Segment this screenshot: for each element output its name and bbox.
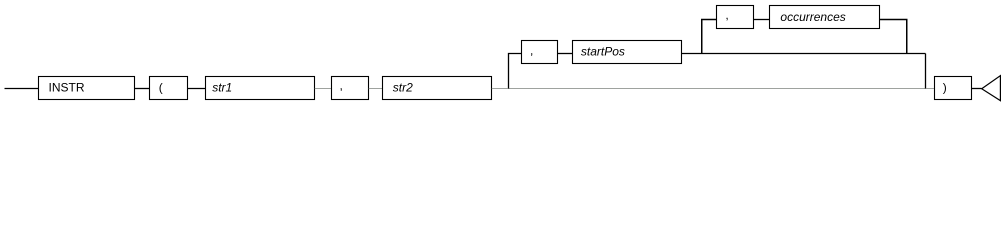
operand occurrences <box>770 6 880 29</box>
operand str1 <box>206 77 315 100</box>
operand startPos <box>573 41 682 64</box>
svg-text:INSTR: INSTR <box>49 81 85 95</box>
terminal INSTR <box>39 77 135 100</box>
end arrow (open triangle) <box>982 76 1001 101</box>
wire <box>972 88 982 90</box>
svg-text:(: ( <box>159 81 163 95</box>
terminal , <box>332 77 369 100</box>
terminal ) <box>935 77 972 100</box>
terminal , (startPos branch) <box>522 41 558 64</box>
wire (dotted) <box>315 88 332 90</box>
wire: branch up to startPos row <box>509 54 522 89</box>
wire <box>135 88 150 90</box>
wire: down to main line <box>925 54 927 89</box>
svg-text:,: , <box>530 44 533 58</box>
svg-text:): ) <box>943 81 947 95</box>
wire: entry line <box>5 88 39 90</box>
operand str2 <box>383 77 492 100</box>
terminal , (occurrences branch) <box>717 6 754 29</box>
wire: occurrences exit, down to startPos level <box>880 20 907 54</box>
wire: startPos-level bypass <box>682 53 926 55</box>
wire <box>188 88 206 90</box>
svg-text:occurrences: occurrences <box>780 10 845 24</box>
svg-text:,: , <box>725 8 728 22</box>
svg-text:str2: str2 <box>393 81 413 95</box>
svg-text:startPos: startPos <box>581 45 625 59</box>
terminal ( <box>150 77 188 100</box>
wire: branch up to occurrences row <box>702 20 717 54</box>
wire <box>558 53 573 55</box>
wire (dotted) <box>369 88 383 90</box>
wire: main bypass line (dotted) <box>492 88 935 90</box>
svg-text:,: , <box>340 79 343 93</box>
wire <box>754 19 770 21</box>
svg-text:str1: str1 <box>212 81 232 95</box>
